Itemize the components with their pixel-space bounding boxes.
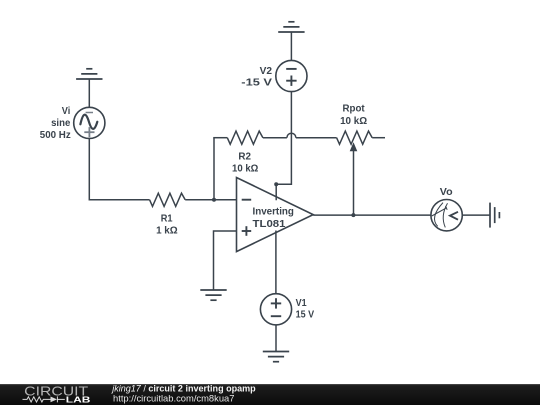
svg-text:V1: V1 xyxy=(296,298,307,309)
ground symbol above Vi xyxy=(76,69,102,79)
svg-text:Inverting: Inverting xyxy=(253,206,294,217)
voltmeter Vo xyxy=(431,200,462,231)
svg-text:R1: R1 xyxy=(161,213,173,224)
svg-text:TL081: TL081 xyxy=(253,219,286,230)
voltage source Vi (sine) xyxy=(74,107,105,138)
wire corner to R2 left xyxy=(213,137,227,139)
wire ground to V2 top xyxy=(290,32,292,61)
wire hop over V2 wire xyxy=(287,133,296,138)
ground symbol below V1 xyxy=(263,352,289,362)
wire junction up to R2 xyxy=(213,138,215,200)
wire voltmeter to ground xyxy=(462,214,490,216)
node output/wiper junction xyxy=(351,213,355,217)
svg-text:500 Hz: 500 Hz xyxy=(40,130,71,141)
wire R2 right toward Rpot xyxy=(263,137,287,139)
svg-text:-15 V: -15 V xyxy=(241,77,272,88)
svg-text:10 kΩ: 10 kΩ xyxy=(340,116,367,127)
wire Vi down xyxy=(89,139,149,200)
potentiometer Rpot body xyxy=(337,131,373,144)
wire R1 to op-amp inverting input xyxy=(185,199,236,201)
wire ground to Vi top xyxy=(88,79,90,107)
svg-text:Rpot: Rpot xyxy=(343,104,366,115)
svg-text:Vi: Vi xyxy=(62,106,71,117)
op-amp plus input mark xyxy=(242,230,252,232)
svg-text:http://circuitlab.com/cm8kua7: http://circuitlab.com/cm8kua7 xyxy=(113,394,235,404)
wire V2 down to op-amp V- pin xyxy=(276,92,291,201)
node junction R1/R2/op-amp xyxy=(212,198,216,202)
node V- supply corner xyxy=(274,182,278,186)
svg-text:1 kΩ: 1 kΩ xyxy=(156,225,178,236)
logo resistor-diode icon xyxy=(23,396,65,402)
svg-text:10 kΩ: 10 kΩ xyxy=(232,163,258,174)
op-amp minus input mark xyxy=(242,199,252,201)
Rpot wiper arrow xyxy=(350,142,358,151)
ground symbol above V2 xyxy=(278,22,304,32)
voltage source V1 xyxy=(260,294,291,325)
wire Rpot right stub xyxy=(372,137,385,139)
op-amp U1 triangle xyxy=(237,178,314,252)
wire V1 to ground xyxy=(275,325,277,352)
svg-text:R2: R2 xyxy=(238,152,251,163)
ground (rotated) right of voltmeter xyxy=(490,203,499,228)
svg-text:sine: sine xyxy=(51,118,71,129)
wire op-amp V+ pin to V1 xyxy=(275,231,277,294)
svg-text:LAB: LAB xyxy=(66,395,91,405)
svg-text:V2: V2 xyxy=(260,66,273,77)
svg-text:jking17 / circuit 2 inverting: jking17 / circuit 2 inverting opamp xyxy=(110,384,256,394)
footer bar xyxy=(0,384,540,405)
wire wiper down to output xyxy=(353,151,355,216)
voltage source V2 xyxy=(276,60,307,91)
svg-text:15 V: 15 V xyxy=(296,310,315,321)
wire hop to Rpot left xyxy=(296,137,337,139)
resistor R1 xyxy=(150,193,186,206)
wire plus input to ground xyxy=(214,231,237,290)
ground symbol below op-amp plus input xyxy=(200,290,226,300)
resistor R2 xyxy=(227,131,263,144)
wire op-amp output to voltmeter xyxy=(313,214,431,216)
svg-text:Vo: Vo xyxy=(440,187,453,198)
